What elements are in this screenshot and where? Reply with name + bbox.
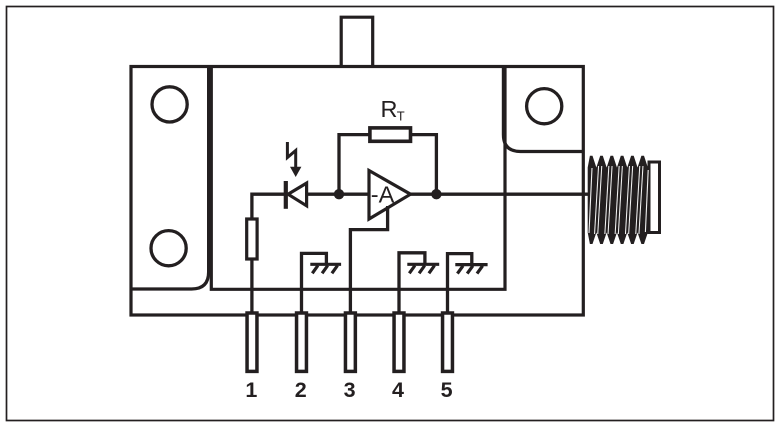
pin 3: [345, 313, 355, 371]
svg-text:1: 1: [245, 378, 257, 402]
svg-text:-A: -A: [371, 182, 395, 208]
ground (pin 2): [310, 264, 341, 273]
wire: main signal line left of photodiode: [252, 194, 286, 219]
wire: amplifier bottom tap to pin 3: [350, 206, 387, 318]
pin number 1: [245, 378, 257, 402]
mounting hole top-right: [527, 89, 562, 124]
op-amp -A: [369, 171, 411, 220]
mounting hole top-left: [152, 87, 187, 122]
pin number 4: [392, 378, 404, 402]
mounting tab (top): [341, 17, 373, 66]
pin number 2: [295, 378, 307, 402]
ground (pin 5): [455, 265, 487, 274]
wire: photodiode to amplifier input: [307, 193, 369, 196]
pin 5: [443, 313, 453, 371]
pin 4: [394, 313, 404, 371]
node A (junction input): [334, 189, 344, 199]
pin 1: [247, 313, 257, 371]
pin 2: [297, 313, 307, 371]
label RT: [381, 96, 405, 124]
wire: pin 5 to ground: [448, 254, 472, 318]
node B (junction output): [431, 189, 441, 199]
wire: pin 4 to ground: [399, 253, 425, 318]
resistor RT (feedback): [370, 128, 411, 141]
pin number 5: [441, 378, 453, 402]
left flange divider with fillet: [131, 66, 209, 289]
svg-text:2: 2: [295, 378, 307, 402]
wire: feedback loop left: [339, 135, 370, 195]
wire: amplifier output to connector: [411, 193, 590, 196]
ground (pin 4): [407, 264, 439, 273]
photodiode cathode bar: [284, 181, 288, 209]
svg-text:3: 3: [344, 378, 356, 402]
svg-text:R: R: [381, 96, 398, 122]
photodiode triangle: [288, 183, 307, 206]
svg-text:5: 5: [441, 378, 453, 402]
right connector block divider with fillet: [503, 66, 583, 152]
svg-text:T: T: [397, 109, 405, 124]
connector barrel: [649, 162, 660, 233]
mounting hole bottom-left: [151, 231, 186, 266]
svg-text:4: 4: [392, 378, 404, 402]
wire: pin 2 to ground: [302, 253, 327, 318]
wire: resistor to pin 1: [250, 259, 253, 318]
light arrow (incident light symbol): [287, 142, 301, 177]
wire: feedback loop right: [411, 135, 437, 195]
resistor (bias, pin 1 branch): [247, 219, 257, 259]
package body outline: [131, 67, 583, 316]
pin number 3: [344, 378, 356, 402]
inner schematic box: [211, 66, 505, 289]
threaded connector (SMA threads): [588, 156, 649, 244]
